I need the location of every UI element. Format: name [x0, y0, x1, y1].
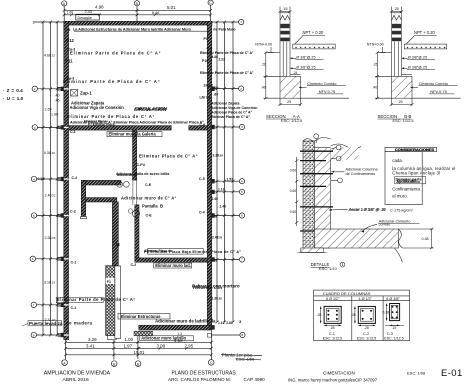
svg-text:3.18.19: 3.18.19	[44, 280, 55, 284]
node R1 bubble	[239, 19, 244, 24]
svg-text:.28: .28	[351, 313, 356, 317]
svg-text:1.53: 1.53	[227, 178, 234, 182]
svg-text:.15: .15	[392, 326, 397, 330]
svg-text:.20: .20	[394, 6, 400, 11]
column new concrete hatched	[314, 148, 330, 249]
label Z U notes	[3, 88, 24, 101]
svg-text:CAP 4990: CAP 4990	[244, 377, 266, 382]
svg-text:2.22: 2.22	[219, 57, 226, 61]
node B2 bottom bubble	[135, 361, 141, 367]
svg-text:.15: .15	[282, 6, 287, 11]
svg-text:NFV-0.75: NFV-0.75	[430, 89, 446, 94]
junction R5	[211, 190, 215, 194]
svg-text:0.38: 0.38	[422, 237, 429, 241]
wire left dim v2	[50, 22, 52, 335]
wire right dim v2	[224, 22, 226, 322]
table col sep2	[382, 296, 384, 341]
svg-text:C-175 kg/cm²: C-175 kg/cm²	[389, 209, 414, 213]
wire wave top	[303, 138, 331, 142]
wire top dim line 2	[64, 14, 210, 16]
wall F1 crosshatched	[106, 266, 116, 336]
node R2 bubble	[239, 86, 244, 91]
svg-text:Adicionar M.: Adicionar M.	[117, 173, 137, 177]
dims	[320, 306, 341, 326]
svg-text:C-3: C-3	[387, 332, 393, 336]
wire inner vertical wall 1	[133, 130, 137, 180]
wall garage top band hatched	[81, 180, 121, 185]
svg-text:Eliminar Parte de Placa de C°: Eliminar Parte de Placa de C° A°	[57, 297, 136, 302]
svg-text:NTN+0.00: NTN+0.00	[367, 43, 384, 47]
wall slits at grid rows	[64, 88, 69, 335]
svg-text:Eliminar Parte de Placa de C°: Eliminar Parte de Placa de C° A°	[63, 79, 161, 84]
svg-text:C-6: C-6	[200, 123, 206, 127]
svg-text:Confinamiento.: Confinamiento.	[392, 187, 421, 192]
wire v-wall1 continuation lines	[132, 180, 134, 205]
wall garage left vertical band	[81, 180, 85, 216]
wire inner horizontal wall 2	[135, 258, 208, 262]
svg-text:Ø 3/8"@.25: Ø 3/8"@.25	[296, 55, 315, 59]
svg-text:C-2: C-2	[70, 210, 76, 214]
wire left dim v3	[56, 22, 58, 335]
note eliminar muro galeria boxed	[107, 132, 162, 137]
node R8 bubble	[240, 332, 245, 337]
wall junction tick markers	[58, 87, 215, 338]
svg-text:.28: .28	[364, 326, 369, 330]
svg-text:1.00: 1.00	[125, 337, 134, 342]
svg-text:C-1: C-1	[70, 130, 76, 134]
column C-3 section	[385, 304, 404, 327]
svg-text:C-E: C-E	[145, 183, 152, 187]
svg-text:C-P4: C-P4	[137, 163, 145, 167]
svg-text:L/B 7.2: L/B 7.2	[200, 96, 211, 100]
svg-text:.25: .25	[286, 100, 291, 104]
node R6 bubble	[239, 213, 244, 218]
svg-text:CIRCULACION: CIRCULACION	[135, 106, 168, 111]
svg-text:.40: .40	[261, 85, 266, 89]
svg-text:Eliminar muro lad.: Eliminar muro lad.	[155, 263, 191, 268]
symbol garage corner circle	[117, 181, 123, 187]
svg-text:.26: .26	[373, 63, 378, 67]
wire right wall bottom cap	[208, 334, 212, 338]
svg-text:6 Ø 3/8": 6 Ø 3/8"	[386, 297, 400, 301]
svg-text:NFV-0.75: NFV-0.75	[319, 89, 335, 94]
svg-text:Eliminar Placa de: Eliminar Placa de	[145, 249, 172, 253]
node 3 bubble	[32, 125, 37, 130]
svg-text:2.40: 2.40	[212, 197, 219, 201]
svg-text:0.60: 0.60	[290, 210, 297, 214]
svg-text:4.46: 4.46	[212, 55, 219, 59]
svg-text:5.01: 5.01	[167, 5, 176, 10]
svg-text:Adicionar muro de ladrillo lla: Adicionar muro de ladrillo lla	[155, 319, 216, 324]
symbol Zap-1	[71, 90, 78, 97]
wire right dim v3	[232, 22, 234, 322]
svg-text:Ø 3/8"@.25: Ø 3/8"@.25	[408, 55, 427, 59]
svg-text:ESC: 1/12.5: ESC: 1/12.5	[281, 118, 302, 123]
svg-text:.40: .40	[55, 94, 60, 98]
wire B stem	[136, 6, 138, 21]
node A bottom bubble	[62, 360, 68, 366]
wire left dim v1	[42, 22, 44, 335]
label Puerta levadiza de madera	[22, 321, 93, 327]
detail section B-B	[375, 7, 461, 106]
wire left band cap	[81, 217, 87, 219]
node 6 bubble	[30, 256, 35, 261]
leader from band bottom	[394, 248, 402, 262]
svg-text:1: 1	[33, 21, 35, 25]
junction L3	[58, 125, 65, 127]
svg-text:Adicionar Viga de Conexión: Adicionar Viga de Conexión	[211, 106, 257, 110]
label demoler blob	[395, 176, 426, 183]
callout 3	[336, 156, 341, 161]
junction R6	[211, 213, 215, 217]
svg-text:C-3: C-3	[207, 47, 212, 51]
svg-text:· U = 1.0: · U = 1.0	[3, 96, 24, 101]
svg-text:1.38.28: 1.38.28	[212, 297, 223, 301]
svg-text:C-1: C-1	[71, 261, 77, 265]
svg-text:2.95: 2.95	[185, 343, 194, 348]
node B1 bottom bubble	[111, 361, 117, 367]
svg-text:.46: .46	[55, 98, 60, 102]
svg-text:2.48.76: 2.48.76	[212, 236, 223, 240]
wire top dim line 1	[64, 9, 210, 11]
svg-text:4 Ø 1/2": 4 Ø 1/2"	[359, 297, 373, 301]
svg-text:.26: .26	[261, 63, 266, 67]
svg-text:Pantalla B: Pantalla B	[142, 204, 163, 209]
svg-text:Cimiento Corrido: Cimiento Corrido	[419, 81, 448, 86]
svg-text:· Z = 0.4: · Z = 0.4	[3, 88, 23, 93]
svg-text:0.53: 0.53	[38, 177, 45, 181]
svg-text:C-4: C-4	[199, 211, 205, 215]
svg-text:F1: F1	[107, 280, 111, 284]
svg-text:PLANO DE ESTRUCTURAS: PLANO DE ESTRUCTURAS	[172, 370, 237, 376]
svg-text:Adicionar Columna: Adicionar Columna	[346, 167, 379, 171]
svg-text:1.13: 1.13	[218, 188, 225, 192]
node 7 bubble	[31, 302, 36, 307]
svg-text:Eliminar Parte de Placa de C°: Eliminar Parte de Placa de C° A°	[200, 71, 254, 75]
wire stem B1	[113, 340, 115, 360]
wire bottom wall	[139, 325, 210, 330]
svg-text:P12: P12	[67, 38, 75, 43]
svg-text:4.98: 4.98	[95, 4, 104, 9]
svg-text:Adicionar Placa de C° A°: Adicionar Placa de C° A°	[211, 110, 253, 114]
svg-text:rte Para Muro: rte Para Muro	[213, 28, 236, 32]
node A top bubble	[62, 1, 67, 6]
junction L8	[58, 333, 65, 335]
wire left dim line	[296, 157, 298, 226]
base pad under wall	[301, 248, 323, 253]
table col sep1	[351, 296, 353, 341]
svg-text:.28: .28	[317, 313, 322, 317]
svg-text:picado asi: picado asi	[397, 177, 416, 182]
svg-text:Adicionar muro ladrillo: Adicionar muro ladrillo	[141, 336, 186, 341]
svg-text:1.97: 1.97	[124, 343, 133, 348]
svg-text:ESC: 1/12.5: ESC: 1/12.5	[357, 336, 376, 340]
detail section A-A	[264, 7, 350, 106]
node C top bubble	[208, 0, 213, 5]
svg-text:ABRIL 2016: ABRIL 2016	[63, 377, 89, 383]
svg-text:3.29: 3.29	[88, 337, 97, 342]
svg-text:C-1: C-1	[329, 332, 335, 336]
node 8 bubble	[31, 332, 36, 337]
symbol hatched block	[134, 331, 153, 336]
svg-text:0.60: 0.60	[290, 189, 297, 193]
wire A stem	[63, 6, 65, 21]
node C bottom bubble	[208, 360, 214, 366]
box header	[385, 147, 437, 151]
note adicionar muro ladrillo boxed	[140, 336, 194, 341]
wall plan hatch right	[331, 147, 360, 160]
junction L7	[58, 303, 65, 305]
wire left wall	[64, 21, 69, 340]
svg-text:2.58.65: 2.58.65	[45, 236, 56, 240]
right bubble digits	[240, 20, 243, 337]
svg-text:Refuerzo con: Refuerzo con	[193, 285, 222, 290]
rebar anchors	[300, 151, 333, 231]
label F1	[106, 278, 115, 284]
junction R7	[211, 257, 215, 261]
svg-text:1.60: 1.60	[51, 113, 58, 117]
wall cap box	[107, 336, 116, 340]
svg-text:corrido: corrido	[379, 222, 391, 226]
junction L5	[58, 213, 65, 215]
node R7 bubble	[239, 257, 244, 262]
svg-text:Ø 3/8"@.25: Ø 3/8"@.25	[296, 65, 315, 69]
svg-text:ING. marco henry machon gonzal: ING. marco henry machon gonzalesCIP 3470…	[288, 377, 378, 382]
wire inner horizontal wall 1b	[189, 126, 208, 131]
svg-text:C-5: C-5	[199, 177, 205, 181]
wall existing stippled	[303, 141, 314, 249]
wire stem C	[210, 330, 212, 360]
wire garage edge band	[115, 266, 121, 339]
svg-text:C-E: C-E	[146, 214, 153, 218]
node B top bubble	[134, 1, 139, 6]
junction L6	[58, 257, 65, 259]
wire desague box	[76, 14, 100, 20]
svg-text:de Confinamiento: de Confinamiento	[346, 172, 376, 176]
svg-text:Eliminar Parte de Placa de C°: Eliminar Parte de Placa de C° A°	[67, 114, 155, 119]
svg-text:Chema lipan Anclaje 3l: Chema lipan Anclaje 3l	[392, 170, 440, 175]
wire stem B2	[137, 336, 139, 359]
column C-2 section	[354, 306, 375, 326]
junction R3	[211, 125, 215, 129]
svg-text:Cimiento Corrido: Cimiento Corrido	[307, 81, 336, 86]
svg-text:P3: P3	[204, 37, 208, 41]
table outer	[314, 290, 410, 340]
svg-text:CONSIDERACIONES: CONSIDERACIONES	[395, 147, 435, 152]
wire C stem	[210, 5, 212, 21]
svg-text:C-2: C-2	[72, 176, 78, 180]
svg-text:2.69: 2.69	[45, 108, 52, 112]
foundation band horizontal	[314, 229, 398, 248]
svg-text:cada.: cada.	[392, 158, 403, 163]
svg-text:0.60: 0.60	[290, 169, 297, 173]
svg-text:2.40.52: 2.40.52	[45, 194, 56, 198]
svg-text:15.01: 15.01	[134, 350, 146, 355]
note eliminar muro boxed 2	[154, 263, 192, 268]
svg-text:3.41: 3.41	[86, 343, 95, 348]
junction R2	[211, 87, 215, 91]
svg-text:C-2: C-2	[363, 332, 369, 336]
svg-text:Zap-1: Zap-1	[80, 91, 92, 96]
svg-text:C-2: C-2	[131, 263, 137, 267]
leader anclar	[329, 208, 348, 211]
svg-text:NPT + 0.20: NPT + 0.20	[414, 30, 435, 35]
junction R4	[211, 179, 215, 183]
wire inner horizontal wall 1	[69, 126, 172, 131]
svg-text:AMPLIACION DE VIVIENDA: AMPLIACION DE VIVIENDA	[44, 370, 111, 376]
svg-text:ESC: 1/12.5: ESC: 1/12.5	[393, 118, 414, 123]
svg-text:Puerta levadiza: Puerta levadiza	[29, 321, 63, 326]
svg-text:C-3: C-3	[65, 28, 71, 32]
svg-text:Eliminar Parte de Placa de C°: Eliminar Parte de Placa de C° A°	[70, 50, 161, 55]
wall garage right vertical band	[112, 202, 118, 266]
right wall annotations	[199, 28, 257, 325]
svg-text:ESC: 1/98: ESC: 1/98	[407, 371, 426, 376]
node R3 bubble	[239, 124, 244, 129]
svg-text:1.40: 1.40	[220, 204, 227, 208]
wire inner vertical wall 2	[135, 205, 139, 258]
svg-text:6 Ø 1/2": 6 Ø 1/2"	[326, 297, 340, 301]
svg-text:P11: P11	[66, 59, 74, 64]
wire row1 line	[34, 21, 64, 23]
svg-text:de madera: de madera	[66, 321, 93, 326]
svg-text:.60: .60	[214, 93, 219, 97]
svg-text:.28: .28	[330, 326, 335, 330]
svg-text:.40: .40	[372, 85, 377, 89]
svg-text:P7 Eliminar Placa: P7 Eliminar Placa	[88, 122, 115, 126]
svg-text:0.38: 0.38	[383, 310, 390, 314]
node R4 bubble	[239, 179, 244, 184]
note eliminar estructuras boxed	[118, 314, 170, 319]
svg-text:Eliminar Parte de Placa de C°: Eliminar Parte de Placa de C° A°	[200, 51, 254, 55]
svg-text:Eliminar muro la Galeria: Eliminar muro la Galeria	[109, 132, 157, 137]
junction R8	[211, 325, 215, 329]
symbol pantalla circle	[132, 210, 139, 217]
wire bottom dim line3	[66, 354, 212, 356]
node R5 bubble	[239, 189, 244, 194]
dimension tick slashes	[42, 9, 235, 356]
svg-text:Anclar 1 Ø 3/8" @ .30: Anclar 1 Ø 3/8" @ .30	[349, 207, 386, 211]
svg-text:ESC: 1/10: ESC: 1/10	[319, 266, 338, 271]
callout 2	[336, 145, 341, 150]
node 5 bubble	[31, 213, 36, 218]
symbol junction dot	[116, 243, 119, 246]
svg-text:.25: .25	[398, 100, 403, 104]
wire stem A	[65, 340, 67, 360]
svg-text:CUADRO DE COLUMNAS: CUADRO DE COLUMNAS	[323, 291, 371, 296]
svg-text:.24: .24	[293, 71, 298, 75]
svg-text:Adicionar Zapata: Adicionar Zapata	[211, 102, 239, 106]
svg-text:NPT + 0.20: NPT + 0.20	[303, 30, 324, 35]
wire right dim v1	[216, 22, 218, 322]
svg-text:Eliminar Placa de C° A°: Eliminar Placa de C° A°	[211, 115, 250, 119]
svg-text:CIMENTACION: CIMENTACION	[323, 371, 355, 376]
node 4 bubble	[31, 176, 36, 181]
leader adicionar cimiento	[362, 224, 378, 232]
svg-text:0.58.26: 0.58.26	[44, 151, 55, 155]
junction L4	[58, 177, 65, 179]
svg-text:3.38.28: 3.38.28	[213, 154, 224, 158]
leader adicionar columna	[332, 171, 345, 173]
wire band break right	[398, 229, 402, 248]
wire bottom dim line2	[66, 347, 212, 349]
svg-text:NTN+0.00: NTN+0.00	[255, 43, 272, 47]
svg-text:Ø 3/8"@.25: Ø 3/8"@.25	[408, 65, 427, 69]
svg-text:Adicionar Viga de Conexión: Adicionar Viga de Conexión	[70, 105, 125, 110]
wire right wall	[207, 21, 212, 330]
svg-text:4.68.32: 4.68.32	[44, 54, 55, 58]
dim 0.38 bracket	[431, 229, 433, 248]
callout 4	[338, 178, 343, 183]
svg-text:P10: P10	[202, 59, 208, 63]
wire bottom dim line1	[66, 341, 212, 343]
callout 1 top	[314, 134, 319, 139]
wall garage band 2 hatched	[81, 198, 117, 202]
svg-text:ARG. CARLOS PALOMINO M.: ARG. CARLOS PALOMINO M.	[168, 377, 231, 382]
table header line1	[314, 295, 410, 297]
wire top wall	[64, 21, 212, 25]
svg-text:ESC: 1/12.5: ESC: 1/12.5	[384, 336, 403, 340]
box body	[385, 152, 422, 205]
node 2 bubble	[32, 86, 37, 91]
table header line2	[314, 300, 410, 302]
svg-text:E-01: E-01	[441, 368, 463, 379]
svg-text:1.3: 1.3	[178, 332, 183, 336]
svg-text:Adicionar muro de C° A°: Adicionar muro de C° A°	[121, 196, 177, 201]
svg-text:Eliminar Placa de C° A°: Eliminar Placa de C° A°	[139, 154, 198, 159]
label Planta 1er piso (struck)	[221, 352, 262, 361]
column C-1 section	[320, 306, 341, 326]
svg-text:el muro.: el muro.	[392, 193, 408, 198]
svg-text:ESC: 1/12.5: ESC: 1/12.5	[323, 336, 342, 340]
svg-text:2.43: 2.43	[85, 10, 92, 14]
svg-text:C-1: C-1	[71, 306, 77, 310]
junction L2	[58, 87, 65, 89]
svg-text:Desagüe: Desagüe	[78, 16, 92, 20]
